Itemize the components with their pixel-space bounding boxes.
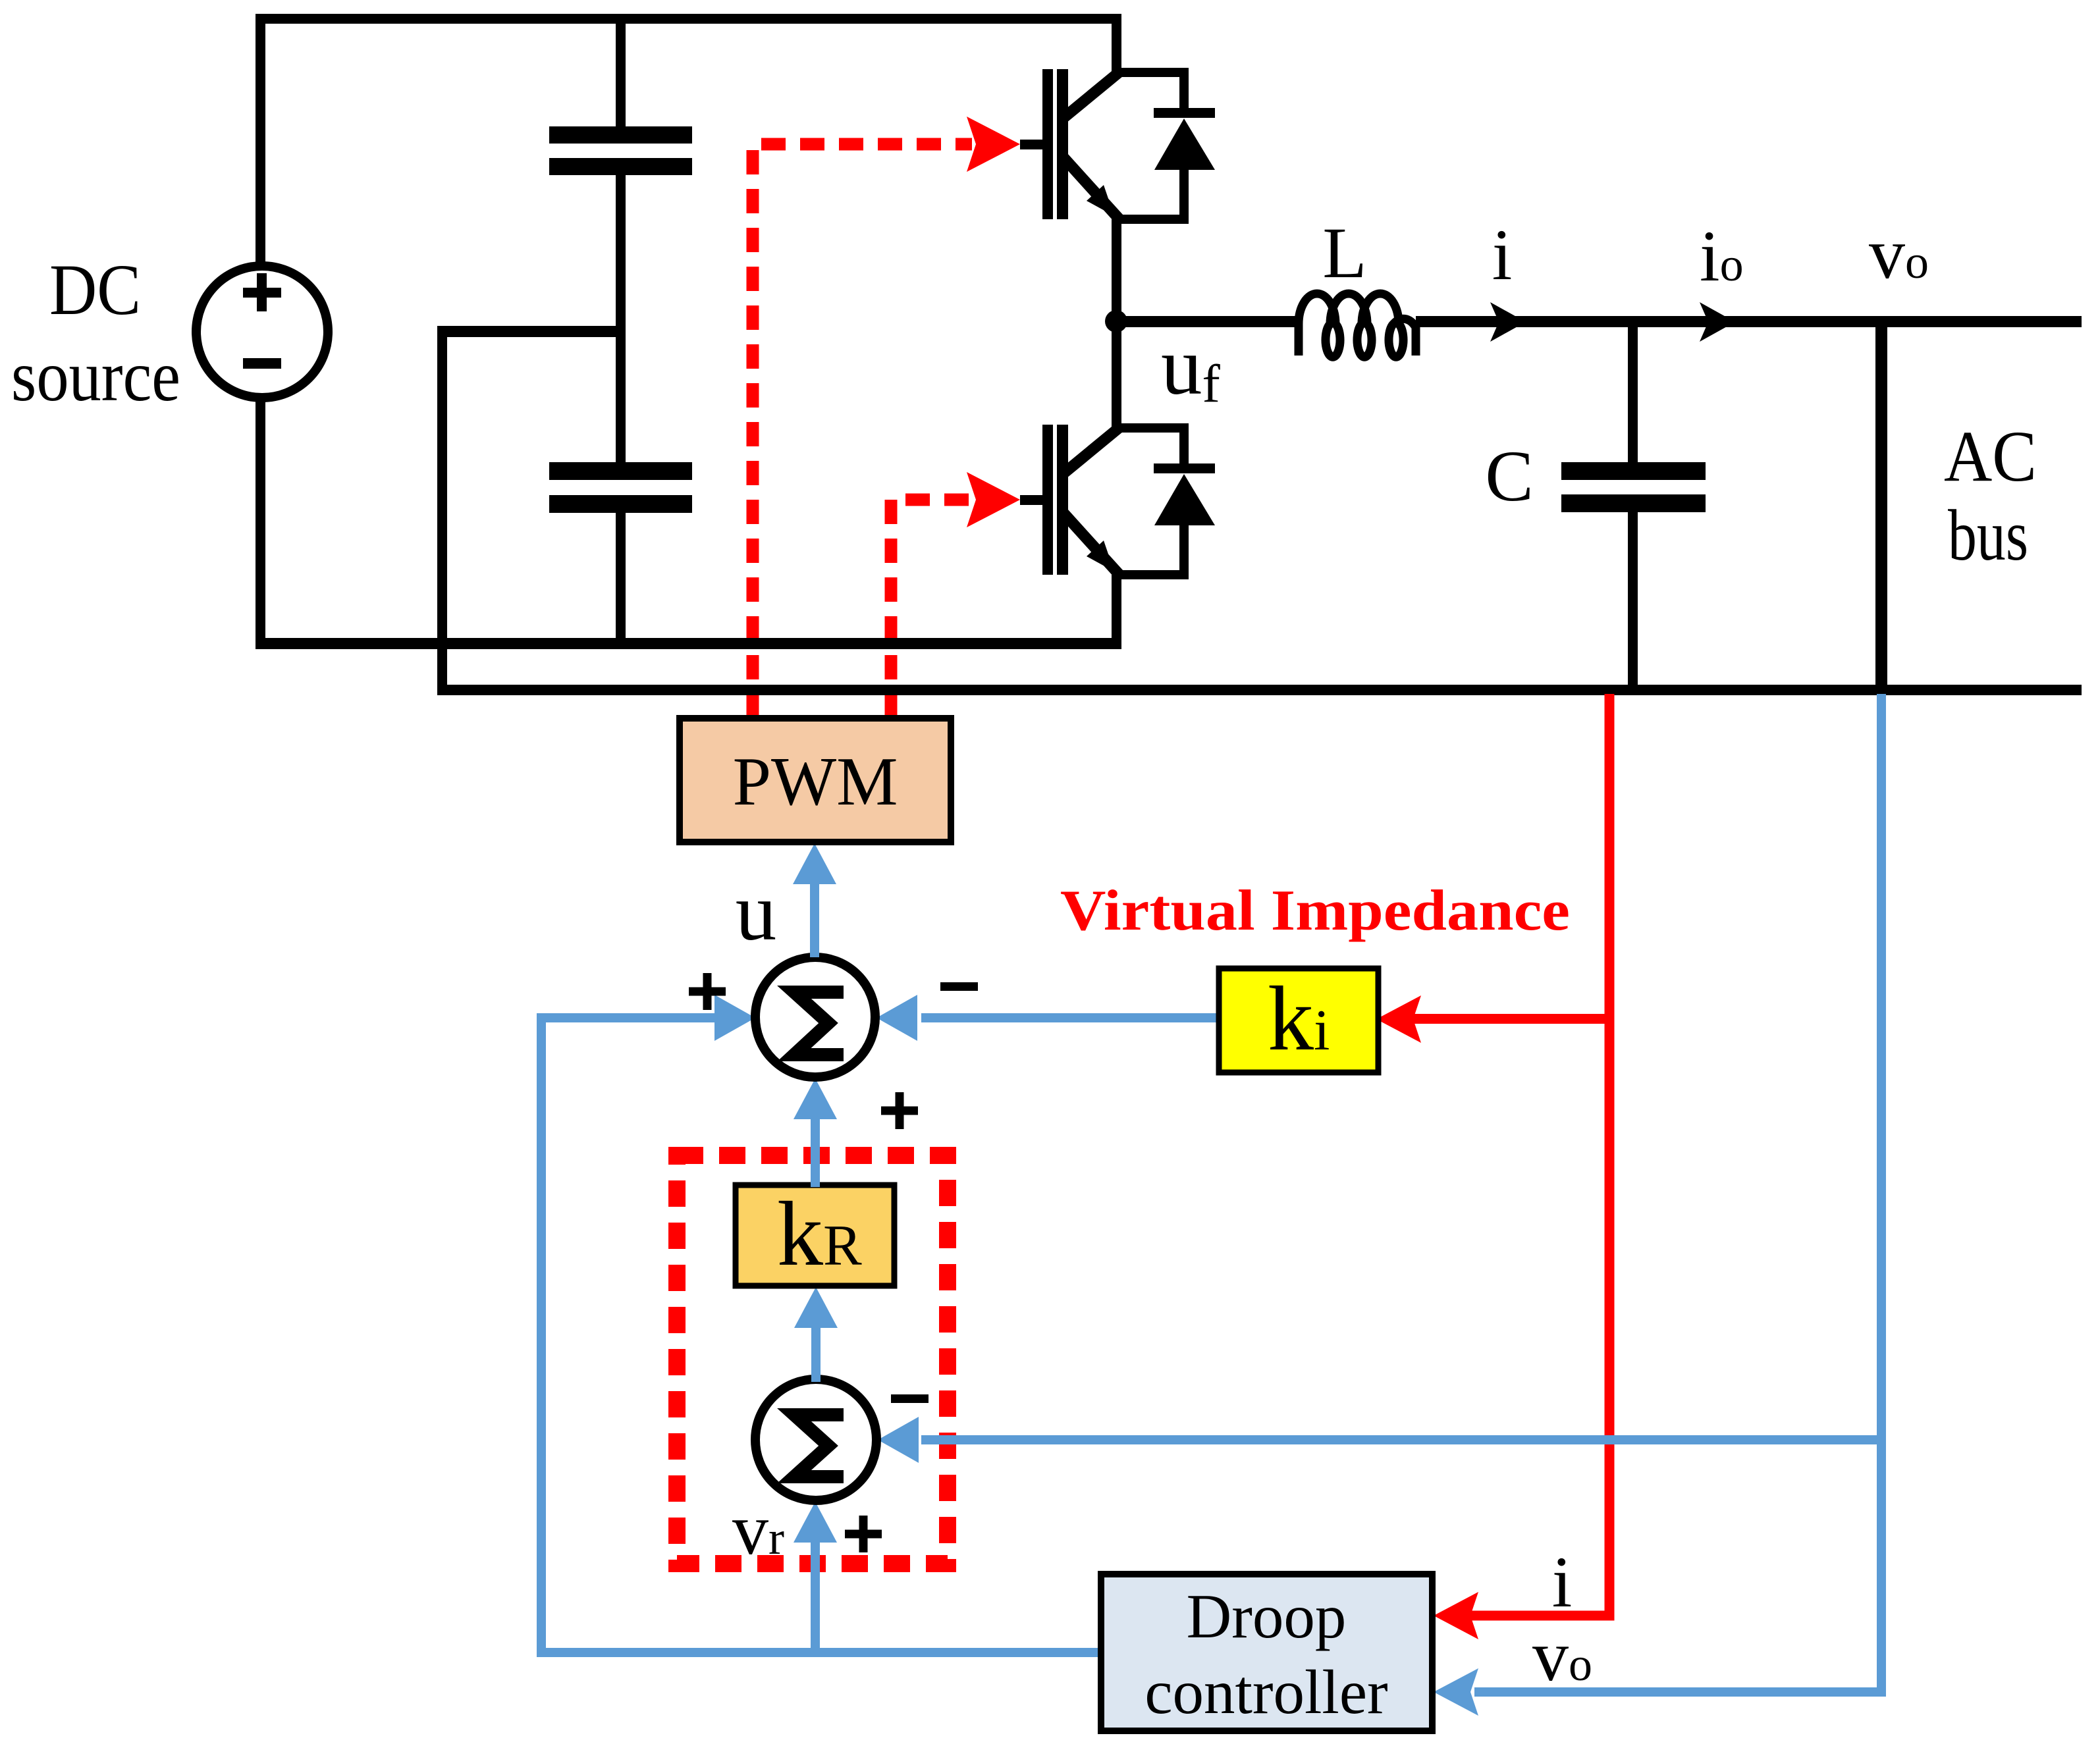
DC source plus sign xyxy=(243,288,281,298)
sum junction sum2 xyxy=(755,1379,876,1500)
PWM block xyxy=(680,718,951,842)
svg-text:AC: AC xyxy=(1944,416,2037,496)
DC source V1 xyxy=(196,266,328,398)
Q1 emitter arrow xyxy=(1087,185,1114,216)
wire: midpoint to inductor xyxy=(1116,316,1299,327)
sigma glyph sum2 xyxy=(794,1415,844,1477)
sum junction sum1 xyxy=(755,957,875,1077)
blue wire: ki output to sum1 (minus) xyxy=(921,1013,1219,1022)
red gate arrowhead Q1 xyxy=(967,117,1020,172)
wire: filter cap drop xyxy=(1628,321,1638,462)
red dashed gate wire to Q1 xyxy=(753,144,972,718)
capacitor C2 (lower dc-link) xyxy=(549,462,692,480)
Q2 gate bar xyxy=(1042,425,1053,575)
wire: rail B (output return) xyxy=(437,685,2082,695)
svg-text:Virtual Impedance: Virtual Impedance xyxy=(1060,879,1570,943)
blue wire: vo feedback vertical xyxy=(1877,694,1886,1697)
gain block ki xyxy=(1219,968,1378,1072)
svg-text:controller: controller xyxy=(1144,1657,1387,1727)
blue arrowhead into sum2 right xyxy=(878,1417,919,1463)
blue arrowhead into droop controller (vo input) xyxy=(1434,1668,1478,1716)
Q1 body bar xyxy=(1057,69,1068,219)
blue wire: droop output to sum1 plus (left loop) xyxy=(541,1018,1101,1652)
svg-text:DC: DC xyxy=(49,250,141,330)
red arrowhead into droop controller (i input) xyxy=(1434,1592,1478,1639)
svg-text:u: u xyxy=(736,867,777,958)
Q1 gate lead xyxy=(1020,140,1044,149)
Q1 gate bar xyxy=(1042,69,1053,219)
blue arrowhead into sum1 bottom xyxy=(794,1078,837,1119)
Droop controller block xyxy=(1101,1574,1432,1731)
D2 triangle xyxy=(1154,474,1215,525)
wire: Q2 emitter to rail A xyxy=(1112,575,1121,649)
wire: top rail xyxy=(256,14,1121,24)
gain block kR xyxy=(736,1185,894,1286)
wire: capacitor midpoint tap xyxy=(437,326,625,337)
Q2 collector diagonal xyxy=(1063,428,1119,474)
current arrow i on line xyxy=(1490,302,1526,342)
D2 anode lead xyxy=(1179,524,1189,579)
inductor L xyxy=(1299,294,1416,357)
blue wire: sum2 to kR xyxy=(811,1328,821,1382)
D1 anode lead xyxy=(1179,169,1189,224)
label: minus at sum2 right xyxy=(891,1394,929,1403)
D2 cathode bar xyxy=(1154,463,1215,473)
wire: Q1 emitter to midpoint xyxy=(1112,219,1121,327)
Q1 emitter diagonal xyxy=(1063,157,1119,219)
svg-text:C: C xyxy=(1485,436,1533,516)
DC source minus sign xyxy=(243,358,281,369)
blue arrowhead into kR bottom xyxy=(794,1287,838,1328)
wire: left rail upper (DC+ to source) xyxy=(256,14,265,268)
Q2 body bar xyxy=(1057,425,1068,575)
svg-text:PWM: PWM xyxy=(733,743,898,820)
D1 triangle xyxy=(1154,119,1215,170)
Q2 gate lead xyxy=(1020,495,1044,505)
red wire: current feedback i from rail B xyxy=(1470,694,1609,1616)
wire: filter cap to rail B xyxy=(1628,512,1638,690)
sigma glyph sum1 xyxy=(794,992,844,1055)
wire: rail A (dc negative) xyxy=(256,638,1121,649)
label: plus at sum1 left xyxy=(689,973,726,1010)
wire: midpoint to Q2 collector xyxy=(1112,321,1121,430)
wire: midpoint tap vertical to rail B xyxy=(437,326,447,695)
blue wire: kR to sum1 xyxy=(811,1119,820,1187)
D1 cathode bar xyxy=(1154,108,1215,118)
svg-text:i: i xyxy=(1552,1542,1573,1622)
label: plus at sum2 bottom xyxy=(845,1516,882,1552)
node uf junction dot xyxy=(1105,310,1127,332)
Q1 collector diagonal xyxy=(1063,72,1119,119)
blue arrowhead into sum1 right xyxy=(876,995,917,1041)
Q2 collector-diode top link xyxy=(1116,423,1189,433)
svg-text:L: L xyxy=(1322,213,1366,293)
wire: below C2 to rail A xyxy=(616,513,626,649)
transistor Q2 (bottom IGBT) xyxy=(1020,423,1189,579)
diode D1 (antiparallel, top) xyxy=(1154,68,1215,224)
blue wire: sum1 to PWM (u) xyxy=(810,883,819,957)
red arrowhead into ki xyxy=(1376,995,1421,1043)
blue wire: vr branch up to sum2 xyxy=(811,1543,820,1652)
wire: dc-link cap branch top xyxy=(616,14,626,128)
Q2 emitter diagonal xyxy=(1063,512,1119,574)
AC bus vertical xyxy=(1875,316,1887,690)
red dashed rectangle (virtual resistor part) xyxy=(677,1155,948,1564)
capacitor C1 (upper dc-link) xyxy=(549,126,692,144)
svg-text:Droop: Droop xyxy=(1187,1581,1347,1651)
blue wire: vo into droop controller xyxy=(1474,1687,1881,1697)
blue arrowhead into PWM bottom xyxy=(793,843,836,884)
Q1 emitter-diode bottom link xyxy=(1116,215,1189,224)
blue wire: vo into sum2 (minus) xyxy=(921,1435,1881,1444)
wire: between C1 and C2 xyxy=(616,175,626,463)
capacitor C (filter) xyxy=(1561,462,1706,480)
svg-text:bus: bus xyxy=(1948,495,2028,575)
Q2 emitter-diode bottom link xyxy=(1116,570,1189,579)
red dashed gate wire to Q2 xyxy=(891,500,972,718)
blue arrowhead into sum2 bottom (vr +) xyxy=(794,1502,837,1543)
red wire: branch into ki xyxy=(1413,1014,1609,1024)
label: minus at sum1 right xyxy=(940,982,978,991)
D2 cathode lead xyxy=(1179,423,1189,469)
wire: collector drop from top rail xyxy=(1112,14,1121,76)
svg-text:i: i xyxy=(1492,215,1513,295)
blue arrowhead into sum1 left xyxy=(714,995,755,1041)
D1 cathode lead xyxy=(1179,68,1189,114)
Q1 collector-diode top link xyxy=(1116,68,1189,77)
transistor Q1 (top IGBT) xyxy=(1020,68,1189,224)
Q2 emitter arrow xyxy=(1087,541,1114,571)
current arrow io on line xyxy=(1700,302,1735,342)
svg-text:source: source xyxy=(11,336,180,416)
red gate arrowhead Q2 xyxy=(967,472,1020,527)
diode D2 (antiparallel, bottom) xyxy=(1154,423,1215,579)
wire: inductor to AC bus line xyxy=(1416,316,2082,327)
label: plus at sum1 bottom xyxy=(881,1092,918,1129)
wire: left rail lower (source to rail A) xyxy=(256,396,265,649)
